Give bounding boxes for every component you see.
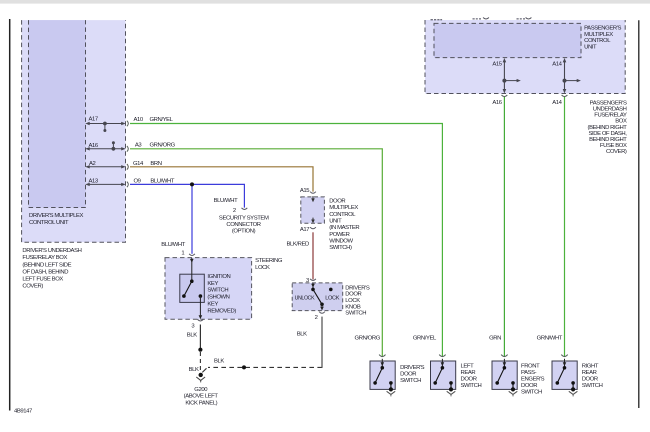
svg-text:CONTROL: CONTROL	[584, 38, 611, 44]
svg-text:LEFT: LEFT	[461, 364, 475, 370]
knob entry arrow	[311, 283, 315, 289]
knob exit arrow	[320, 304, 324, 310]
entry arrow into door multiplex	[311, 196, 315, 202]
svg-text:KICK PANEL): KICK PANEL)	[185, 400, 217, 406]
ground G200 symbol	[196, 373, 205, 383]
svg-text:GRN/ORG: GRN/ORG	[355, 335, 381, 341]
wire GRN/WHT A14 to right rear door switch	[564, 97, 566, 357]
driver underdash fuse/relay box (outer dashed)	[22, 20, 126, 242]
svg-text:GRN/ORG: GRN/ORG	[150, 143, 176, 149]
svg-text:GRN/WHT: GRN/WHT	[537, 335, 563, 341]
svg-text:A10: A10	[134, 117, 144, 123]
svg-text:MULTIPLEX: MULTIPLEX	[329, 205, 358, 211]
svg-text:BRN: BRN	[150, 161, 161, 167]
svg-text:RIGHT: RIGHT	[582, 364, 599, 370]
ignition entry line and arrow	[190, 258, 194, 281]
svg-text:DOOR: DOOR	[521, 383, 537, 389]
svg-text:A17: A17	[89, 116, 98, 122]
svg-text:REMOVED): REMOVED)	[207, 309, 236, 315]
svg-text:SWITCH): SWITCH)	[329, 245, 352, 251]
svg-text:LOCK: LOCK	[325, 296, 339, 302]
svg-text:FRONT: FRONT	[521, 364, 540, 370]
svg-text:2: 2	[233, 208, 236, 214]
connector at O9	[127, 182, 128, 188]
svg-text:A16: A16	[89, 143, 99, 149]
connector at G14	[127, 164, 128, 170]
svg-text:A15: A15	[492, 62, 502, 68]
svg-text:SWITCH: SWITCH	[582, 383, 603, 389]
svg-text:A14: A14	[552, 100, 562, 106]
passenger underdash fuse/relay box (outer dashed)	[425, 20, 625, 94]
wire GRN A16 to front passenger's door switch	[503, 97, 505, 357]
junction dot on dashed wire	[242, 365, 246, 369]
svg-text:A15: A15	[300, 188, 310, 194]
driver's multiplex control unit (inner dashed)	[29, 20, 86, 207]
svg-text:BLU/WHT: BLU/WHT	[150, 178, 175, 184]
wire BRN G14 to door multiplex A15	[130, 167, 313, 192]
pin A15 line (passenger)	[502, 58, 520, 93]
svg-text:2: 2	[315, 315, 318, 321]
svg-text:CONTROL: CONTROL	[329, 212, 356, 218]
svg-text:BLK: BLK	[187, 332, 197, 338]
svg-text:SWITCH: SWITCH	[345, 311, 366, 317]
svg-text:SIDE OF DASH,: SIDE OF DASH,	[588, 131, 627, 137]
label DRIVER'S DOOR LOCK KNOB SWITCH	[345, 285, 370, 316]
label DRIVER'S UNDERDASH FUSE/RELAY BOX (BEHIND LEFT SIDE OF DASH, BEHIND LEFT FUSE BOX COVER)	[22, 248, 81, 289]
svg-text:A17: A17	[300, 227, 309, 233]
svg-text:SWITCH: SWITCH	[521, 390, 542, 396]
svg-text:BOX: BOX	[615, 119, 627, 125]
passenger's multiplex control unit (inner dashed)	[434, 23, 581, 57]
svg-text:REAR: REAR	[582, 370, 597, 376]
svg-text:BLU/WHT: BLU/WHT	[214, 198, 239, 204]
pin A13 line	[85, 183, 125, 186]
svg-text:COVER): COVER)	[606, 149, 627, 155]
svg-text:4B9147: 4B9147	[14, 409, 32, 415]
ignition key switch inner box	[180, 274, 205, 302]
svg-text:DRIVER'S UNDERDASH: DRIVER'S UNDERDASH	[22, 248, 81, 254]
label IGNITION KEY SWITCH (SHOWN KEY REMOVED)	[207, 274, 236, 315]
connector A17	[310, 227, 316, 229]
svg-text:UNDERDASH: UNDERDASH	[593, 107, 627, 113]
svg-text:BLU/WHT: BLU/WHT	[161, 242, 186, 248]
svg-text:DOOR: DOOR	[329, 199, 345, 205]
svg-text:OF DASH, BEHIND: OF DASH, BEHIND	[22, 269, 68, 275]
svg-text:FUSE/RELAY BOX: FUSE/RELAY BOX	[22, 255, 67, 261]
svg-text:G200: G200	[194, 387, 208, 393]
connector at A10	[127, 121, 128, 127]
connector A14 below box	[562, 95, 568, 97]
svg-text:DOOR: DOOR	[461, 377, 477, 383]
svg-text:WINDOW: WINDOW	[329, 239, 353, 245]
svg-text:REAR: REAR	[461, 370, 476, 376]
svg-text:FUSE BOX: FUSE BOX	[600, 143, 627, 149]
svg-text:CONTROL UNIT: CONTROL UNIT	[29, 220, 69, 226]
connector A15	[310, 192, 316, 194]
svg-text:DOOR: DOOR	[582, 377, 598, 383]
svg-text:A16: A16	[492, 100, 502, 106]
svg-text:STEERING: STEERING	[255, 258, 283, 264]
svg-text:FUSE/RELAY: FUSE/RELAY	[594, 113, 627, 119]
junction dot BLK	[198, 348, 202, 352]
svg-text:POWER: POWER	[329, 232, 349, 238]
pin A17 line	[85, 122, 125, 132]
svg-text:BLK/RED: BLK/RED	[287, 241, 310, 247]
svg-text:LEFT FUSE BOX: LEFT FUSE BOX	[22, 276, 63, 282]
front passenger's door switch S3	[492, 355, 517, 397]
wire GRN/YEL A10 to left rear door switch	[130, 124, 442, 357]
svg-text:(SHOWN: (SHOWN	[207, 295, 229, 301]
cropped connector above passenger box (right)	[526, 18, 532, 20]
svg-text:(BEHIND RIGHT: (BEHIND RIGHT	[588, 125, 628, 131]
svg-text:GRN: GRN	[489, 335, 501, 341]
svg-text:DRIVER'S: DRIVER'S	[400, 365, 425, 371]
svg-text:A2: A2	[89, 161, 96, 167]
svg-text:BLK: BLK	[297, 332, 307, 338]
wire BLK knob switch down	[321, 317, 323, 368]
left border line	[9, 19, 11, 411]
svg-text:LOCK: LOCK	[255, 265, 270, 271]
svg-text:(IN MASTER: (IN MASTER	[329, 225, 359, 231]
svg-text:G14: G14	[133, 161, 144, 167]
svg-text:SECURITY SYSTEM: SECURITY SYSTEM	[219, 215, 269, 221]
svg-text:KNOB: KNOB	[345, 304, 361, 310]
connector security system	[242, 208, 248, 210]
right rear door switch S4	[552, 355, 577, 397]
wire BLU/WHT O9	[130, 184, 244, 207]
ignition switch contacts	[182, 279, 202, 298]
door multiplex control unit box	[301, 197, 325, 223]
connector ignition pin 1	[189, 254, 195, 256]
svg-text:A3: A3	[135, 143, 143, 149]
svg-text:A13: A13	[89, 179, 99, 185]
label RIGHT REAR DOOR SWITCH	[582, 364, 603, 390]
svg-text:UNLOCK: UNLOCK	[295, 296, 315, 302]
wire BLK/RED to knob switch	[312, 232, 314, 279]
svg-text:LOCK: LOCK	[345, 298, 360, 304]
svg-text:KEY: KEY	[207, 302, 218, 308]
svg-text:DRIVER'S MULTIPLEX: DRIVER'S MULTIPLEX	[29, 213, 84, 219]
steering lock dashed box	[165, 258, 252, 320]
svg-text:O9: O9	[134, 178, 141, 184]
svg-text:DOOR: DOOR	[400, 371, 416, 377]
connector knob pin 2	[319, 312, 325, 314]
label LEFT REAR DOOR SWITCH	[461, 364, 482, 390]
wire BLU/WHT branch to ignition key switch	[191, 184, 193, 253]
svg-text:(ABOVE LEFT: (ABOVE LEFT	[184, 394, 219, 400]
dashed wire knob switch to ground	[208, 366, 322, 368]
top window bar	[0, 0, 650, 4]
svg-text:KEY: KEY	[207, 281, 218, 287]
label DRIVER'S DOOR SWITCH	[400, 365, 425, 384]
cropped connector above passenger box (left)	[483, 18, 489, 20]
svg-text:A14: A14	[552, 62, 562, 68]
cropped text remnants above passenger box	[431, 18, 526, 20]
pin A16 line	[85, 141, 125, 151]
svg-text:IGNITION: IGNITION	[207, 274, 230, 280]
knob switch contacts	[311, 288, 332, 307]
driver's door switch S1	[370, 355, 395, 397]
svg-text:MULTIPLEX: MULTIPLEX	[584, 32, 613, 38]
svg-text:(OPTION): (OPTION)	[232, 229, 256, 235]
wire BLK ignition to ground	[199, 325, 201, 350]
label DOOR MULTIPLEX CONTROL UNIT (IN MASTER POWER WINDOW SWITCH)	[329, 199, 359, 252]
svg-text:COVER): COVER)	[22, 284, 43, 290]
svg-text:SWITCH: SWITCH	[461, 383, 482, 389]
driver's door lock knob switch box	[292, 283, 343, 311]
svg-text:UNIT: UNIT	[584, 45, 597, 51]
svg-text:(BEHIND LEFT SIDE: (BEHIND LEFT SIDE	[22, 262, 71, 268]
svg-text:ENGER'S: ENGER'S	[521, 377, 545, 383]
exit arrow out of door multiplex	[311, 218, 315, 224]
connector knob pin 3	[310, 279, 316, 281]
svg-text:1: 1	[181, 251, 184, 257]
svg-text:DRIVER'S: DRIVER'S	[345, 285, 370, 291]
label PASSENGER'S UNDERDASH FUSE/RELAY BOX (BEHIND RIGHT SIDE OF DASH, BEHIND RIGHT FUSE BOX COVER)	[588, 100, 628, 155]
connector at A3	[127, 146, 128, 152]
left rear door switch S2	[431, 355, 456, 397]
wire GRN/ORG A3 to driver's door switch	[130, 149, 382, 357]
pin A2 line	[85, 165, 125, 168]
svg-text:BLK: BLK	[189, 367, 199, 373]
svg-text:BEHIND RIGHT: BEHIND RIGHT	[589, 137, 627, 143]
connector ignition pin 3	[198, 319, 204, 321]
svg-text:PASSENGER'S: PASSENGER'S	[590, 100, 627, 106]
svg-text:GRN/YEL: GRN/YEL	[413, 335, 437, 341]
dashed wire to ground G200	[199, 352, 201, 371]
connector A16 below box	[502, 95, 508, 97]
svg-text:SWITCH: SWITCH	[400, 378, 421, 384]
label FRONT PASSENGER'S DOOR SWITCH	[521, 364, 545, 396]
svg-text:PASSENGER'S: PASSENGER'S	[584, 26, 621, 32]
svg-text:SWITCH: SWITCH	[207, 288, 228, 294]
svg-text:GRN/YEL: GRN/YEL	[150, 117, 174, 123]
svg-text:DOOR: DOOR	[345, 292, 361, 298]
svg-text:CONNECTOR: CONNECTOR	[226, 222, 260, 228]
svg-text:PASS-: PASS-	[521, 370, 537, 376]
right border line	[638, 20, 640, 408]
svg-text:BLK: BLK	[214, 359, 224, 365]
label PASSENGER'S MULTIPLEX CONTROL UNIT	[584, 26, 621, 51]
svg-text:UNIT: UNIT	[329, 219, 342, 225]
ignition exit line and arrow	[199, 296, 203, 319]
junction dot BLU/WHT	[190, 182, 194, 186]
pin A14 line (passenger)	[563, 58, 581, 93]
